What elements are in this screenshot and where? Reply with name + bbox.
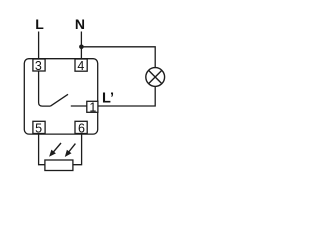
svg-text:N: N — [75, 16, 85, 32]
wire terminal 6 to sensor — [73, 134, 82, 165]
switch blade — [51, 94, 69, 106]
device box — [24, 59, 97, 134]
terminal 1 — [87, 101, 98, 115]
svg-text:L’: L’ — [102, 91, 114, 107]
svg-text:5: 5 — [35, 122, 42, 136]
svg-text:L: L — [35, 16, 44, 32]
svg-text:4: 4 — [77, 59, 84, 73]
photoresistor body — [45, 160, 73, 171]
terminal 5 — [33, 121, 45, 135]
wire N feed — [80, 32, 82, 60]
junction N node — [79, 45, 84, 50]
terminal 4 — [75, 59, 87, 73]
svg-text:6: 6 — [78, 122, 85, 136]
wire N to lamp — [81, 47, 155, 68]
lamp E1 — [146, 68, 165, 87]
light arrow 1 — [49, 143, 61, 157]
switch pole wire from terminal 3 — [39, 71, 51, 106]
terminal 6 — [75, 121, 87, 135]
wire lamp to L' terminal — [98, 86, 155, 106]
switch fixed contact wire to terminal 1 — [71, 105, 87, 107]
light arrow 2 — [65, 144, 76, 157]
wire terminal 5 to sensor — [39, 134, 45, 165]
wire L feed — [38, 32, 40, 60]
svg-text:1: 1 — [89, 101, 96, 115]
terminal 3 — [33, 59, 45, 73]
svg-text:3: 3 — [35, 59, 42, 73]
